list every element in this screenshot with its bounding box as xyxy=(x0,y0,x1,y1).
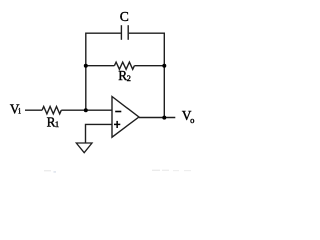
node junction right rail / R2 xyxy=(162,64,166,68)
resistor R1 xyxy=(42,107,61,114)
pin label minus (inverting input) xyxy=(115,111,121,113)
svg-text:2: 2 xyxy=(127,73,131,83)
wire left feedback rail xyxy=(85,33,87,111)
node junction inverting input / left rail xyxy=(84,108,88,112)
wire R2 rail right lead xyxy=(134,65,164,67)
capacitor C xyxy=(121,25,128,40)
svg-text:1: 1 xyxy=(55,119,59,129)
wire top rail right segment xyxy=(129,32,165,34)
label Vi xyxy=(10,101,22,116)
wire R1 to inverting input xyxy=(61,109,112,111)
pin label plus (non-inverting input) xyxy=(114,121,120,128)
wire input lead Vi to R1 xyxy=(25,109,42,111)
svg-text:C: C xyxy=(120,9,129,24)
label R1 xyxy=(47,114,60,129)
ground xyxy=(76,143,92,153)
node junction output / right rail xyxy=(162,116,166,120)
wire non-inverting input to ground xyxy=(86,124,113,143)
wire R2 rail left lead xyxy=(86,65,115,67)
wire top rail left segment xyxy=(86,32,121,34)
op-amp U1 xyxy=(112,97,139,138)
resistor R2 xyxy=(114,62,134,69)
node junction left rail / R2 xyxy=(84,64,88,68)
svg-text:o: o xyxy=(190,115,194,125)
label Vo xyxy=(182,108,194,125)
wire output xyxy=(139,117,175,119)
label R2 xyxy=(118,68,131,83)
wire right feedback rail xyxy=(163,33,165,118)
